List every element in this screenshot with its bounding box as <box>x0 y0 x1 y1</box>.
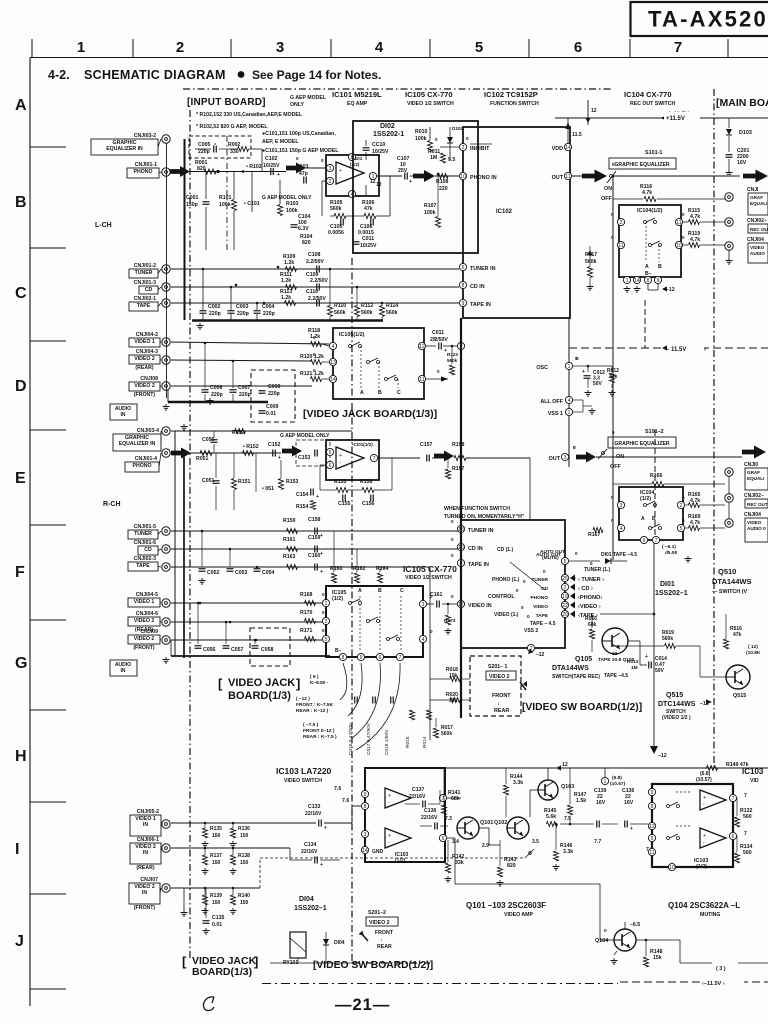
switch inside IC104 row1 <box>644 221 647 224</box>
svg-text:CD: CD <box>144 547 152 553</box>
svg-text:CD: CD <box>145 287 153 293</box>
svg-text:TUNER: TUNER <box>135 270 153 276</box>
svg-text:220p: 220p <box>209 311 221 317</box>
pin IC103R-7 <box>729 794 736 801</box>
svg-text:[VIDEO SW BOARD(1/2)]: [VIDEO SW BOARD(1/2)] <box>522 702 642 713</box>
svg-text:A: A <box>641 516 645 522</box>
wire tape R extension <box>429 567 431 660</box>
top ruler line <box>30 57 768 59</box>
wire video1 row G <box>171 602 322 604</box>
connector CNJ108 video2 front <box>162 382 170 390</box>
svg-text:9: 9 <box>651 790 654 796</box>
wire tuner R row <box>171 530 459 532</box>
svg-text:GRAPHIC EQUALIZER: GRAPHIC EQUALIZER <box>614 162 670 168</box>
svg-text:R015: R015 <box>405 736 411 748</box>
pin video in R <box>457 600 464 607</box>
pin video ctrl <box>561 601 568 608</box>
svg-text:↓: ↓ <box>497 701 500 707</box>
pin IC105cd-12 <box>418 342 425 349</box>
svg-text:4.7k: 4.7k <box>690 498 700 504</box>
svg-text:VIDEO IN: VIDEO IN <box>468 603 492 609</box>
svg-text:‹–11.5V ›: ‹–11.5V › <box>702 981 725 987</box>
svg-text:9: 9 <box>360 655 363 661</box>
pin IC102-14 vdd <box>564 143 571 150</box>
svg-text:VIDEO AMP: VIDEO AMP <box>504 912 533 918</box>
svg-text:C016 0.47/50V: C016 0.47/50V <box>348 722 354 755</box>
pin tape in R <box>457 559 464 566</box>
pin IC103L-14 gnd <box>361 846 368 853</box>
svg-text:1.2k: 1.2k <box>284 260 294 266</box>
pin IC103L-7 <box>439 794 446 801</box>
svg-text:2: 2 <box>176 39 184 56</box>
board bottom dash-dot border <box>262 983 618 985</box>
svg-text:CNJI0: CNJI0 <box>744 462 758 468</box>
svg-text:+: + <box>324 825 327 831</box>
svg-text:INHIBIT: INHIBIT <box>470 146 490 152</box>
pin IC101b-6 <box>326 461 333 468</box>
svg-text:A: A <box>15 97 27 114</box>
svg-text:(6.8): (6.8) <box>612 775 622 781</box>
svg-text:0: 0 <box>313 368 316 373</box>
svg-text:+: + <box>316 494 319 500</box>
svg-text:TA-AX520: TA-AX520 <box>648 7 768 32</box>
svg-text:C158: C158 <box>308 517 321 523</box>
svg-text:C108: C108 <box>308 252 321 258</box>
svg-text:12: 12 <box>591 108 597 114</box>
ground Q104 <box>613 958 615 961</box>
pin IC101-8 <box>348 153 355 160</box>
wire R116 row to jack <box>681 198 725 200</box>
svg-text:IN: IN <box>121 668 126 674</box>
svg-text:VDD: VDD <box>552 146 563 152</box>
wire phono to IC102 <box>377 175 402 177</box>
svg-text:+: + <box>320 533 323 539</box>
svg-text:IC102: IC102 <box>496 209 513 215</box>
svg-text:1: 1 <box>77 39 85 56</box>
svg-text:CC10: CC10 <box>372 142 385 148</box>
svg-text:+: + <box>645 654 648 660</box>
svg-text:L-CH: L-CH <box>95 222 112 229</box>
svg-text:IC105(1/2): IC105(1/2) <box>339 332 365 338</box>
svg-text:0: 0 <box>313 335 316 340</box>
svg-text:AEP, E MODEL: AEP, E MODEL <box>262 139 299 145</box>
svg-text:25V: 25V <box>398 168 408 174</box>
svg-text:VIDEO (1.): VIDEO (1.) <box>494 612 519 618</box>
svg-text:J: J <box>15 933 24 950</box>
svg-text:16V: 16V <box>624 800 634 806</box>
opamp IC101 half1 box <box>326 155 379 196</box>
svg-text:Q101 –103 2SC2603F: Q101 –103 2SC2603F <box>466 901 546 910</box>
svg-text:CNJI03-2: CNJI03-2 <box>134 133 156 139</box>
ground row F <box>201 578 203 581</box>
wire Q104 collector <box>624 922 626 929</box>
svg-text:B: B <box>378 390 382 396</box>
svg-text:C133: C133 <box>308 804 321 810</box>
pin tuner ctrl <box>561 574 568 581</box>
svg-text:1SS202-1: 1SS202-1 <box>373 131 404 138</box>
svg-text:C135: C135 <box>212 915 225 921</box>
svg-text:R166: R166 <box>650 473 663 479</box>
pin IC103L-6 <box>439 834 446 841</box>
connector CNJ101-3 cd <box>162 283 170 291</box>
svg-text:]: ] <box>254 954 258 969</box>
svg-text:REAR: REAR <box>377 944 392 950</box>
svg-text:1M: 1M <box>430 155 437 161</box>
pin IC103R-12 <box>648 822 655 829</box>
diode D104 <box>323 939 329 945</box>
wire right bottom bus <box>679 940 681 963</box>
wire cd R row <box>171 548 459 550</box>
svg-text:[VIDEO SW BOARD(1/2)]: [VIDEO SW BOARD(1/2)] <box>313 960 433 971</box>
svg-text:6.3V: 6.3V <box>298 226 309 232</box>
svg-text:OUT: OUT <box>552 175 564 181</box>
svg-text:10/25V: 10/25V <box>372 149 389 155</box>
svg-text:8: 8 <box>342 655 345 661</box>
svg-text:* R102,52 820 G AEP, MODEL: * R102,52 820 G AEP, MODEL <box>196 124 268 130</box>
signal arrow after C102 <box>286 163 306 174</box>
svg-text:8: 8 <box>651 804 654 810</box>
svg-text:AUTO OUT: AUTO OUT <box>536 552 561 558</box>
svg-text:C160: C160 <box>308 553 321 559</box>
svg-text:0: 0 <box>682 495 685 500</box>
pin phono ctrl <box>561 592 568 599</box>
svg-text:VIDEO 2: VIDEO 2 <box>369 920 390 926</box>
pin IC101-1 <box>369 172 376 179</box>
svg-text:(10.57): (10.57) <box>610 781 626 787</box>
svg-text:CNJI02–: CNJI02– <box>747 218 767 224</box>
pin cd ctrl <box>561 583 568 590</box>
svg-text:TAPE IN: TAPE IN <box>470 302 491 308</box>
wire inhibit <box>440 146 459 148</box>
svg-text:VIDEO 2: VIDEO 2 <box>134 636 155 642</box>
signal arrow S101-2 <box>576 452 596 463</box>
svg-text:150: 150 <box>212 900 221 906</box>
svg-text:C: C <box>400 588 404 594</box>
svg-text:150: 150 <box>240 900 249 906</box>
svg-text:[: [ <box>218 676 223 691</box>
svg-text:R168: R168 <box>300 592 313 598</box>
ground R173 <box>447 628 449 631</box>
opamp IC101 half2 <box>336 447 364 469</box>
svg-text:4: 4 <box>620 526 623 532</box>
resistors R137 R138 150 <box>203 855 208 865</box>
svg-text:2: 2 <box>325 619 328 625</box>
svg-text:50V: 50V <box>593 381 603 387</box>
svg-text:CNJI09: CNJI09 <box>140 629 158 635</box>
svg-text:100k: 100k <box>424 210 436 216</box>
svg-text:( –6.1): ( –6.1) <box>662 544 676 550</box>
svg-text:R110: R110 <box>334 303 346 309</box>
svg-text:C002: C002 <box>208 304 221 310</box>
svg-text:VIDEO: VIDEO <box>533 604 548 610</box>
wire tape L row <box>171 302 459 304</box>
svg-text:C001: C001 <box>186 195 199 201</box>
svg-text:5: 5 <box>475 39 483 56</box>
wire from IC105g pin3 <box>427 603 430 605</box>
opamp IC103R 2 <box>700 828 726 848</box>
svg-text:0: 0 <box>612 430 615 435</box>
svg-text:100k: 100k <box>219 202 231 208</box>
transistor Q101 <box>457 817 479 839</box>
svg-text:3: 3 <box>364 832 367 838</box>
svg-text:22/16V: 22/16V <box>305 811 322 817</box>
svg-text:7.6: 7.6 <box>342 798 349 804</box>
svg-text:( 3 ): ( 3 ) <box>716 966 726 972</box>
svg-text:GRAF: GRAF <box>750 195 763 200</box>
svg-text:5: 5 <box>564 559 567 565</box>
svg-text:R159: R159 <box>283 518 296 524</box>
wire auto out right <box>569 560 600 562</box>
svg-text:4.7k: 4.7k <box>642 190 652 196</box>
resistors R110 R112 R114 560k <box>328 306 333 317</box>
pins IC104 bottom 1 14 8 9 <box>623 276 630 283</box>
pin IC101-2 <box>326 177 333 184</box>
input board top dashed border <box>183 88 613 90</box>
opamp IC103R 1 <box>700 790 726 810</box>
signal arrow IC102 out <box>582 170 607 183</box>
svg-text:ALL OFF: ALL OFF <box>540 399 563 405</box>
svg-text:0: 0 <box>612 162 615 167</box>
transistor Q515 <box>726 665 750 689</box>
opamp IC101 half1 <box>336 162 364 184</box>
pin IC102-2 inhibit <box>459 143 466 150</box>
pin IC105g-2 <box>322 617 329 624</box>
svg-text:4: 4 <box>422 637 425 643</box>
pin auto out <box>561 557 568 564</box>
thick bus row C bottom <box>192 319 383 321</box>
svg-text:CNJI02-3: CNJI02-3 <box>134 556 156 562</box>
wire video2f row D <box>171 385 312 387</box>
IC105 half box row CD <box>333 328 424 399</box>
svg-text:C056: C056 <box>203 647 216 653</box>
svg-text:1.2k: 1.2k <box>281 295 291 301</box>
resistors R139 R140 150 <box>203 895 208 905</box>
svg-text:Q104 2SC3622A –L: Q104 2SC3622A –L <box>668 901 740 910</box>
pin IC102-8 cd in <box>459 281 466 288</box>
bus vertical R-ch heavy <box>183 453 185 658</box>
pin IC105cd-4 <box>329 342 336 349</box>
S201-1 dashed box <box>470 656 521 716</box>
svg-text:CNJI06-1: CNJI06-1 <box>137 837 159 843</box>
svg-text:2: 2 <box>620 220 623 226</box>
svg-text:+: + <box>630 826 633 832</box>
left ruler line <box>29 58 31 1007</box>
wire video1 row D <box>171 342 329 344</box>
wires caps row C <box>202 269 204 310</box>
svg-text:150p: 150p <box>186 202 198 208</box>
wire S101-1 node <box>612 176 614 560</box>
svg-text:R137: R137 <box>210 853 222 859</box>
svg-text:560: 560 <box>743 814 752 820</box>
wire Q104 base <box>600 939 614 941</box>
svg-text:CNJI04: CNJI04 <box>744 512 761 518</box>
svg-text:TUNER IN: TUNER IN <box>468 528 494 534</box>
svg-text:10/25V: 10/25V <box>360 243 377 249</box>
svg-text:C005: C005 <box>198 142 211 148</box>
svg-text:SWITCH(TAPE REC): SWITCH(TAPE REC) <box>552 674 600 680</box>
svg-text:– 11.5V: – 11.5V <box>666 347 686 353</box>
svg-text:DI04: DI04 <box>334 940 345 946</box>
pin IC103L-3 <box>361 830 368 837</box>
svg-text:0: 0 <box>604 928 607 934</box>
svg-text:3: 3 <box>564 455 567 461</box>
svg-text:0: 0 <box>433 336 436 341</box>
pin VSS1 <box>565 408 572 415</box>
connector CNJ101-1 phono <box>162 168 170 176</box>
IC102 box <box>463 127 570 318</box>
svg-text:G: G <box>15 655 27 672</box>
svg-text:TAPE IN: TAPE IN <box>468 562 489 568</box>
IC105 video box rows G <box>326 586 423 657</box>
svg-text:(REAR): (REAR) <box>135 365 153 371</box>
svg-text:C157: C157 <box>420 442 433 448</box>
svg-text:CNJI07: CNJI07 <box>140 877 158 883</box>
svg-text:11: 11 <box>618 243 623 249</box>
svg-text:0: 0 <box>466 136 469 141</box>
pin IC103L-8 <box>361 802 368 809</box>
svg-text:C053: C053 <box>235 570 248 576</box>
wire row B to right edge <box>613 175 740 177</box>
svg-text:TUNER: TUNER <box>531 577 548 583</box>
input board left dashed border <box>189 110 191 958</box>
svg-text:B: B <box>652 516 656 522</box>
wire R019 row <box>613 645 664 647</box>
svg-text:2.9: 2.9 <box>482 843 489 849</box>
svg-text:4: 4 <box>375 39 384 56</box>
svg-text:IC102 TC9152P: IC102 TC9152P <box>484 90 538 99</box>
pin OUT row E <box>561 453 568 460</box>
svg-text:Q101: Q101 <box>480 820 493 826</box>
svg-text:F: F <box>15 564 25 581</box>
svg-text:150: 150 <box>212 833 221 839</box>
svg-text:0: 0 <box>521 605 524 610</box>
wire video1 in row I <box>171 822 316 824</box>
svg-text:GRAPHIC EQUALIZER: GRAPHIC EQUALIZER <box>614 441 670 447</box>
svg-text:2.2/50V: 2.2/50V <box>306 259 324 265</box>
svg-text:VIDEO 1: VIDEO 1 <box>134 339 155 345</box>
svg-text:CNJI02-1: CNJI02-1 <box>134 296 156 302</box>
svg-text:47k: 47k <box>733 632 742 638</box>
bus vertical L-ch heavy <box>184 139 186 320</box>
wire +11.5V rail <box>555 117 768 119</box>
pin IC104b-4 <box>617 524 624 531</box>
svg-text:IC101 M5219L: IC101 M5219L <box>332 90 382 99</box>
signal arrow after C152 <box>282 446 302 457</box>
svg-text:R157: R157 <box>452 466 465 472</box>
svg-text:VID: VID <box>750 778 759 784</box>
svg-text:0: 0 <box>437 369 440 374</box>
svg-text:TUNER IN: TUNER IN <box>470 266 496 272</box>
svg-text:—21—: —21— <box>335 996 390 1014</box>
svg-text:–12: –12 <box>666 287 675 293</box>
svg-text:Q515: Q515 <box>666 692 683 699</box>
wire video amp input <box>439 790 441 804</box>
ground right jacks <box>728 258 730 261</box>
svg-text:[INPUT BOARD]: [INPUT BOARD] <box>187 97 266 108</box>
svg-text:Q105: Q105 <box>575 656 592 663</box>
capacitors C006 C007 220p <box>202 389 209 391</box>
ground at C201 <box>728 170 730 173</box>
pin OSC <box>565 362 572 369</box>
svg-text:+: + <box>320 862 323 868</box>
pins IC105g bottom <box>339 653 346 660</box>
pin IC104-10 <box>675 241 682 248</box>
svg-text:●C101,151 150p G AEP MODEL: ●C101,151 150p G AEP MODEL <box>262 148 339 154</box>
svg-text:CD (1.): CD (1.) <box>497 547 513 553</box>
svg-text:R153: R153 <box>286 479 299 485</box>
svg-text:0: 0 <box>322 628 325 633</box>
svg-text:5: 5 <box>651 836 654 842</box>
svg-text:0: 0 <box>516 588 519 593</box>
svg-text:0: 0 <box>435 137 438 142</box>
svg-text:0: 0 <box>575 551 578 556</box>
svg-text:12: 12 <box>376 182 382 188</box>
svg-text:+: + <box>278 455 281 461</box>
svg-text:33k: 33k <box>455 860 464 866</box>
svg-text:PHONO: PHONO <box>530 595 548 601</box>
svg-text:R158: R158 <box>452 442 465 448</box>
svg-text:8: 8 <box>647 278 650 284</box>
svg-text:8: 8 <box>364 804 367 810</box>
svg-text:4: 4 <box>332 344 335 350</box>
svg-text:B: B <box>15 194 27 211</box>
feedback wires row E <box>320 489 336 491</box>
svg-text:VIDEO 1: VIDEO 1 <box>134 599 155 605</box>
svg-text:560k: 560k <box>441 731 452 737</box>
svg-text:7: 7 <box>732 796 735 802</box>
pin IC103L-9 <box>361 790 368 797</box>
svg-text:R013: R013 <box>627 659 639 665</box>
svg-text:OFF: OFF <box>610 464 621 470</box>
pin IC104-2 <box>617 218 624 225</box>
svg-text:[VIDEO JACK BOARD(1/3)]: [VIDEO JACK BOARD(1/3)] <box>303 408 437 420</box>
switch contacts S101-2 <box>602 452 605 455</box>
svg-text:0: 0 <box>682 518 685 523</box>
pin IC103R-11 <box>648 848 655 855</box>
switches IC105g <box>349 602 352 605</box>
svg-text:20: 20 <box>562 612 568 618</box>
svg-text:(10.57): (10.57) <box>696 777 712 783</box>
svg-text:10: 10 <box>669 865 675 871</box>
grounds OSC <box>587 390 589 393</box>
svg-text:0.01: 0.01 <box>212 922 222 928</box>
pin IC104b-5 <box>677 524 684 531</box>
wire row E out to right <box>596 456 742 458</box>
pin IC105cd-14 <box>329 375 336 382</box>
svg-text:VIDEO 2: VIDEO 2 <box>134 356 155 362</box>
right jack row B 1 <box>725 193 733 201</box>
relay RY101 <box>290 932 306 958</box>
svg-text:560k: 560k <box>361 310 373 316</box>
wire 12 drop into IC102 <box>587 100 589 125</box>
pin IC101b-5 <box>326 448 333 455</box>
IC103 L box <box>365 768 445 862</box>
svg-text:R160: R160 <box>330 566 343 572</box>
svg-text:CNJI: CNJI <box>747 187 759 193</box>
svg-text:0: 0 <box>321 158 324 163</box>
svg-text:IN: IN <box>121 412 126 418</box>
svg-text:SCHEMATIC DIAGRAM: SCHEMATIC DIAGRAM <box>84 68 226 82</box>
audio in box row G <box>110 660 137 676</box>
signal arrow row E mid <box>434 451 454 462</box>
svg-text:S201– 1: S201– 1 <box>488 664 507 670</box>
svg-text:5: 5 <box>325 637 328 643</box>
svg-text:R140: R140 <box>238 893 250 899</box>
svg-text:C110: C110 <box>306 289 318 295</box>
svg-text:A: A <box>645 264 649 270</box>
svg-text:2: 2 <box>564 585 567 591</box>
connector CNJ104-2 video1 <box>162 338 170 346</box>
